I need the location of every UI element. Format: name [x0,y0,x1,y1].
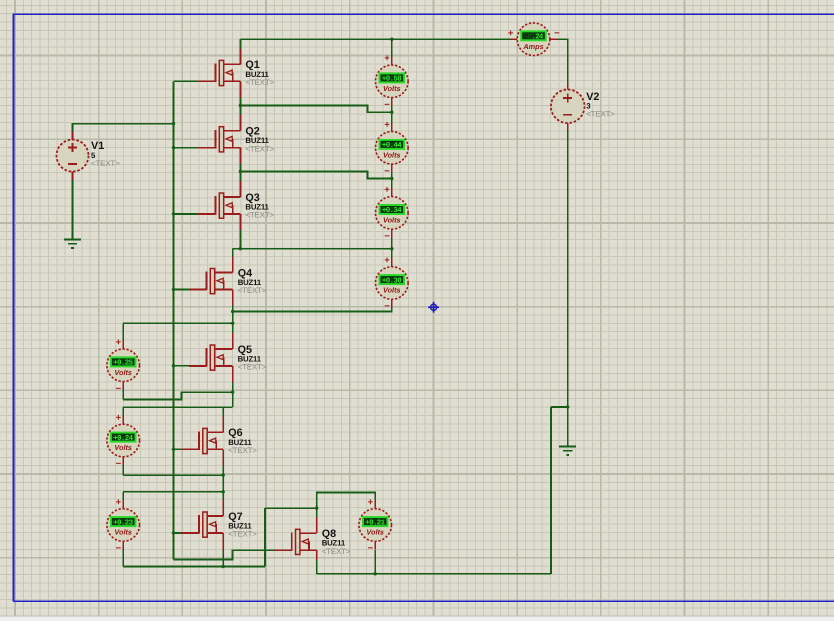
voltmeter U8 (+0.21 Volts) [359,497,392,554]
wire: Q1 source to Q2 drain [239,97,241,114]
wire junction dots [172,122,175,125]
wire: Q3/Q4 node horizontal [233,248,392,250]
svg-text:-0.24: -0.24 [524,34,544,42]
wire: V2 - down to ground node [567,130,569,446]
svg-text:−: − [554,28,560,39]
wire: Q8 source to bottom bus [316,560,318,574]
svg-text:+: + [384,255,390,266]
wire: gate bus to Q5 gate [174,365,189,367]
wire: voltmeter U7 + stub [122,492,124,501]
wire: voltmeter U7 - horizontal [123,566,265,568]
svg-text:+: + [116,497,122,508]
svg-text:−: − [384,166,390,177]
svg-text:+: + [116,337,122,348]
wire: V1 + to gate bus [73,124,174,132]
wire: gate bus to Q4 gate [174,288,189,290]
wire: Q1/Q2 node to meter chain jog 1 [240,106,391,113]
pin stub: ammeter right [550,38,557,40]
wire: Q1 drain to ammeter + (top net) [240,38,510,40]
transistor Q2 (BUZ11) [198,115,275,164]
window edge strip [0,616,834,621]
voltmeter U3 (+0.34 Volts) [376,185,409,242]
wire: gate bus vertical [173,81,175,559]
voltmeter U2 (+0.44 Volts) [376,120,409,177]
svg-text:−: − [384,301,390,312]
ground symbol (V1 return) [64,239,81,248]
svg-text:+0.25: +0.25 [113,360,133,368]
svg-text:Volts: Volts [383,150,401,159]
wire: voltmeter U5 - drop [122,390,124,400]
svg-text:+: + [116,412,122,423]
svg-text:<TEXT>: <TEXT> [238,363,267,372]
svg-text:<TEXT>: <TEXT> [228,530,257,539]
wire: V1 - to ground [72,180,74,240]
voltmeter U1 (+0.58 Volts) [376,53,409,110]
voltmeter U4 (+0.30 Volts) [376,255,409,312]
ammeter A1 (-0.24 Amps) [508,23,560,56]
svg-text:Volts: Volts [114,368,132,377]
dc source V2 (3V) [551,90,615,124]
svg-text:+: + [508,28,514,39]
mouse crosshair cursor [428,302,439,313]
svg-text:−: − [116,543,122,554]
pin stub: ammeter left [510,38,517,40]
svg-text:+0.44: +0.44 [382,142,402,150]
transistor Q8 (BUZ11) [275,517,351,560]
wire: Q2 source to Q3 drain [239,164,241,181]
wire: Q6 drain pin riser [222,407,224,416]
svg-text:<TEXT>: <TEXT> [245,144,274,153]
wire: voltmeter U7 - stub [122,550,124,567]
wire: gate bus to Q7 gate [174,532,182,534]
wire: voltmeter U6 + stub [122,407,124,416]
wire: top net to voltmeter U1 + [391,39,393,57]
transistor Q3 (BUZ11) [198,181,275,230]
pin stub: V2 top [567,83,569,90]
svg-text:Volts: Volts [383,286,401,295]
svg-text:+0.23: +0.23 [113,519,133,527]
svg-text:−: − [384,231,390,242]
dc source V1 (5V) [57,140,121,172]
wire: gate bus to Q3 gate [174,213,199,215]
svg-text:Volts: Volts [114,443,132,452]
wire: voltmeter U1 - to U2 + [391,106,393,132]
wire: Q3 source drop [239,230,241,249]
transistor Q4 (BUZ11) [189,256,267,305]
wire: Q4 source to Q5 drain [232,305,234,333]
wire: voltmeter U2 - to U3 + [391,172,393,196]
wire: Q8 drain up and to voltmeter U8 + [317,493,376,517]
wire: gate bus to Q2 gate [174,147,199,149]
svg-text:+0.34: +0.34 [382,207,402,215]
svg-text:−: − [368,543,374,554]
voltmeter U6 (+0.24 Volts) [107,412,140,469]
wire: Q5 source drop to U6 net [232,382,234,407]
svg-text:<TEXT>: <TEXT> [245,211,274,220]
wire: bottom return bus [317,573,551,575]
svg-text:+: + [384,120,390,131]
pin stub: V1 top [72,132,74,140]
wire: ammeter - to V2 + [551,39,568,83]
svg-text:+0.30: +0.30 [382,277,402,285]
wire: gate bus to Q1 gate [174,80,199,82]
transistor Q6 (BUZ11) [181,416,257,465]
svg-text:−: − [384,99,390,110]
svg-text:Volts: Volts [114,528,132,537]
wire: Q6 source horizontal [123,474,223,476]
svg-text:−: − [116,383,122,394]
svg-text:+0.24: +0.24 [113,435,133,443]
svg-text:<TEXT>: <TEXT> [238,286,267,295]
wire: right return bus down [550,407,552,574]
wire: voltmeter U6 - drop [122,465,124,475]
svg-text:+0.58: +0.58 [382,76,402,84]
wire: voltmeter U5 + stub [122,323,124,341]
voltmeter U5 (+0.25 Volts) [107,337,140,394]
wire: voltmeter U4 - link [233,308,392,312]
wire: gate bus to Q6 gate [174,448,182,450]
wire: riser x265 [264,508,266,566]
svg-text:<TEXT>: <TEXT> [91,159,120,168]
svg-text:+: + [368,497,374,508]
svg-text:+0.21: +0.21 [365,519,385,527]
wire: Q4 drain pin riser [232,249,234,257]
wire: voltmeter U8 - to bottom bus [374,550,376,574]
svg-text:+: + [384,53,390,64]
wire: Q6 source to Q7 drain [222,465,224,500]
wire: Q5/Q6 node horizontal [123,406,232,408]
ground symbol (V2 return) [559,446,576,455]
pin stub: V2 bottom [567,122,569,130]
svg-text:Volts: Volts [383,216,401,225]
voltmeter U7 (+0.23 Volts) [107,497,140,554]
svg-text:<TEXT>: <TEXT> [322,547,351,556]
transistor Q7 (BUZ11) [181,500,257,551]
wire: Q2/Q3 node to meter chain jog 2 [240,172,391,179]
svg-text:<TEXT>: <TEXT> [228,446,257,455]
transistor Q5 (BUZ11) [189,333,267,382]
wire: Q7 drain to voltmeter U7 + [123,491,223,493]
wire: Q7 source net to Q8 drain net riser [265,507,317,509]
wire: Q1 drain pin riser [239,39,241,48]
svg-text:+: + [384,185,390,196]
wire: voltmeter U3 - to U4 + [391,237,393,266]
svg-text:Amps: Amps [522,42,543,51]
svg-text:Volts: Volts [383,84,401,93]
svg-text:<TEXT>: <TEXT> [245,78,274,87]
wire: Q4/Q5 node to voltmeter U5 + [123,322,233,324]
wire: gate bus jog to Q8 gate [174,550,275,559]
wire: U5 - jog to Q5 source [123,392,232,399]
svg-text:Volts: Volts [366,528,384,537]
svg-text:<TEXT>: <TEXT> [586,110,615,119]
svg-text:−: − [116,459,122,470]
transistor Q1 (BUZ11) [198,48,275,97]
pin stub: V1 bottom [72,171,74,179]
wire: ground node tap [551,406,568,408]
wire: Q7 source pin lower [222,550,224,566]
